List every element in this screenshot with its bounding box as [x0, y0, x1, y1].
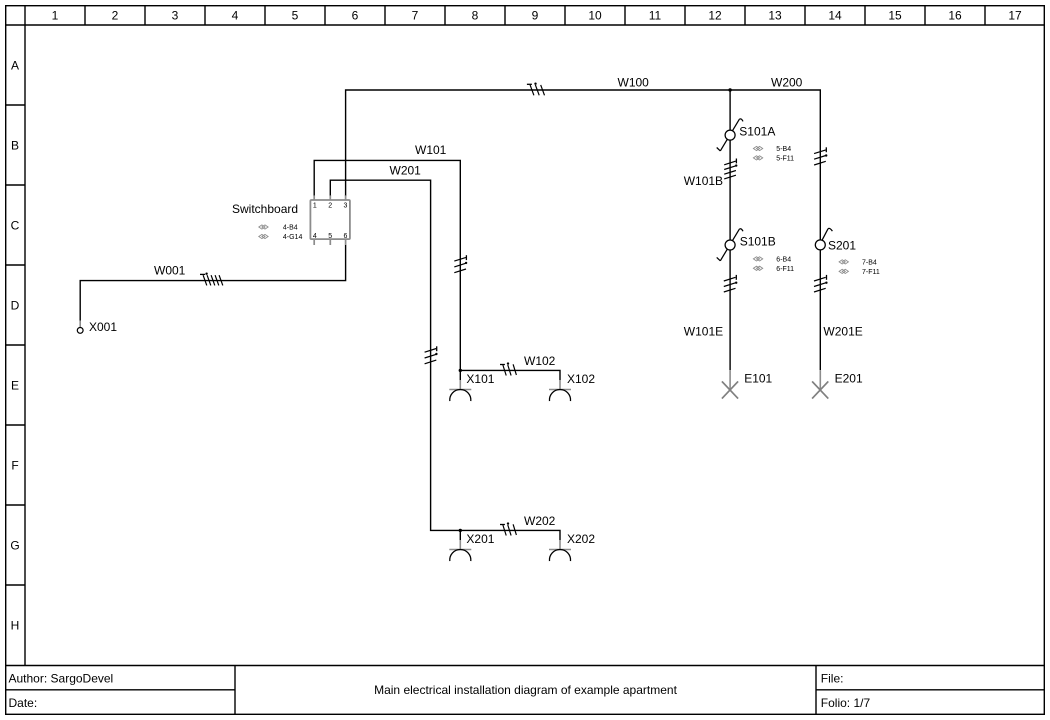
wire W001: [80, 245, 345, 321]
cable mark W100 (3 conductors): [527, 83, 545, 96]
cable mark W101E (3 conductors): [724, 275, 738, 292]
wire X201 drop: [459, 530, 461, 540]
folio reference 5-B4: [753, 146, 791, 153]
folio reference 5-F11: [753, 155, 794, 162]
cable mark W202 (3 conductors): [500, 522, 516, 535]
svg-text:14: 14: [828, 9, 842, 23]
svg-text:12: 12: [708, 9, 722, 23]
switch S101B: [717, 229, 743, 261]
svg-text:W101: W101: [415, 143, 447, 157]
svg-text:W200: W200: [771, 76, 803, 90]
wire X101 drop: [459, 370, 461, 380]
socket X101: [449, 380, 471, 401]
svg-text:X202: X202: [567, 532, 595, 546]
svg-text:7-F11: 7-F11: [862, 269, 880, 276]
svg-text:X001: X001: [89, 320, 117, 334]
cable mark W201E (3 conductors): [814, 275, 828, 292]
folio reference 7-F11: [839, 269, 880, 276]
svg-text:2: 2: [328, 202, 332, 209]
wire W101: [314, 160, 460, 370]
folio reference 7-B4: [839, 259, 877, 266]
svg-text:C: C: [11, 218, 20, 232]
folio reference 6-B4: [753, 256, 791, 263]
svg-text:17: 17: [1008, 9, 1022, 23]
svg-text:X102: X102: [567, 372, 595, 386]
svg-text:D: D: [11, 298, 20, 312]
svg-text:3: 3: [172, 9, 179, 23]
svg-text:F: F: [11, 458, 18, 472]
svg-text:2: 2: [112, 9, 119, 23]
svg-text:W102: W102: [524, 354, 556, 368]
svg-text:9: 9: [532, 9, 539, 23]
svg-text:W201: W201: [390, 164, 422, 178]
wire W100 (pin 3 to junction): [346, 90, 730, 195]
svg-text:S101B: S101B: [740, 235, 776, 249]
cable mark W101 (3 conductors): [454, 255, 467, 273]
svg-text:7: 7: [412, 9, 419, 23]
svg-text:E: E: [11, 378, 19, 392]
wire W202: [460, 530, 560, 540]
svg-text:S201: S201: [828, 238, 856, 252]
wire W101E: [729, 250, 731, 370]
lamp E201: [812, 370, 828, 399]
svg-text:5: 5: [292, 9, 299, 23]
lamp E101: [722, 370, 738, 399]
svg-text:X201: X201: [466, 532, 494, 546]
switch S201: [815, 228, 832, 250]
svg-text:G: G: [10, 538, 19, 552]
cable mark W200 (3 conductors): [814, 147, 827, 165]
svg-text:E101: E101: [744, 371, 772, 385]
cable mark W201 (3 conductors): [425, 346, 438, 364]
socket X102: [549, 380, 571, 401]
switchboard: [310, 195, 350, 245]
svg-text:6: 6: [343, 233, 347, 240]
wire S101A top feed: [729, 90, 731, 130]
svg-text:5-F11: 5-F11: [776, 155, 794, 162]
svg-text:8: 8: [472, 9, 479, 23]
junction W101/W102 at X101: [459, 369, 462, 372]
svg-text:10: 10: [588, 9, 602, 23]
wire W201E: [819, 250, 821, 370]
svg-text:W201E: W201E: [823, 325, 862, 339]
svg-text:11: 11: [649, 9, 662, 23]
pin numbers 1 2 3 4 5 6: [313, 202, 348, 240]
svg-text:1: 1: [313, 202, 317, 209]
svg-text:6-F11: 6-F11: [776, 266, 794, 273]
svg-text:B: B: [11, 138, 19, 152]
cable mark W102 (3 conductors): [500, 362, 516, 375]
svg-text:X101: X101: [466, 372, 494, 386]
wire W102: [460, 370, 560, 380]
folio reference 4-B4: [259, 225, 298, 232]
svg-text:Date:: Date:: [9, 696, 38, 710]
svg-text:5-B4: 5-B4: [776, 146, 791, 153]
svg-text:A: A: [11, 58, 19, 72]
svg-text:13: 13: [768, 9, 782, 23]
svg-text:4-G14: 4-G14: [283, 234, 303, 241]
svg-text:Folio: 1/7: Folio: 1/7: [821, 696, 871, 710]
svg-text:W101E: W101E: [684, 325, 723, 339]
svg-text:W001: W001: [154, 264, 186, 278]
cable mark W101B (4 conductors): [724, 159, 737, 179]
cable mark W001 (5 conductors): [200, 273, 223, 286]
wire W200: [730, 90, 820, 240]
svg-text:7-B4: 7-B4: [862, 259, 877, 266]
wire W101B: [729, 140, 731, 240]
folio reference 4-G14: [259, 234, 303, 241]
svg-text:Switchboard: Switchboard: [232, 202, 298, 216]
svg-text:Author: SargoDevel: Author: SargoDevel: [9, 671, 114, 685]
svg-text:6-B4: 6-B4: [776, 256, 791, 263]
svg-text:4: 4: [313, 233, 317, 240]
svg-text:16: 16: [948, 9, 962, 23]
switch S101A: [717, 119, 743, 151]
svg-text:W100: W100: [618, 76, 650, 90]
svg-text:H: H: [11, 618, 20, 632]
svg-text:W202: W202: [524, 514, 556, 528]
socket X201: [449, 540, 471, 561]
svg-text:1: 1: [52, 9, 59, 23]
wire W201: [330, 180, 460, 530]
terminal X001: [77, 321, 83, 334]
svg-text:6: 6: [352, 9, 359, 23]
svg-text:E201: E201: [835, 371, 863, 385]
svg-text:5: 5: [328, 233, 332, 240]
svg-text:15: 15: [888, 9, 902, 23]
folio reference 6-F11: [753, 266, 794, 273]
svg-text:4-B4: 4-B4: [283, 225, 298, 232]
junction W100/W200: [728, 88, 731, 91]
svg-text:W101B: W101B: [684, 174, 723, 188]
socket X202: [549, 540, 571, 561]
svg-text:Main electrical installation d: Main electrical installation diagram of …: [374, 683, 677, 697]
junction W201/W202 at X201: [459, 529, 462, 532]
svg-text:4: 4: [232, 9, 239, 23]
svg-text:S101A: S101A: [739, 125, 775, 139]
svg-text:3: 3: [343, 202, 347, 209]
svg-text:File:: File:: [821, 671, 844, 685]
